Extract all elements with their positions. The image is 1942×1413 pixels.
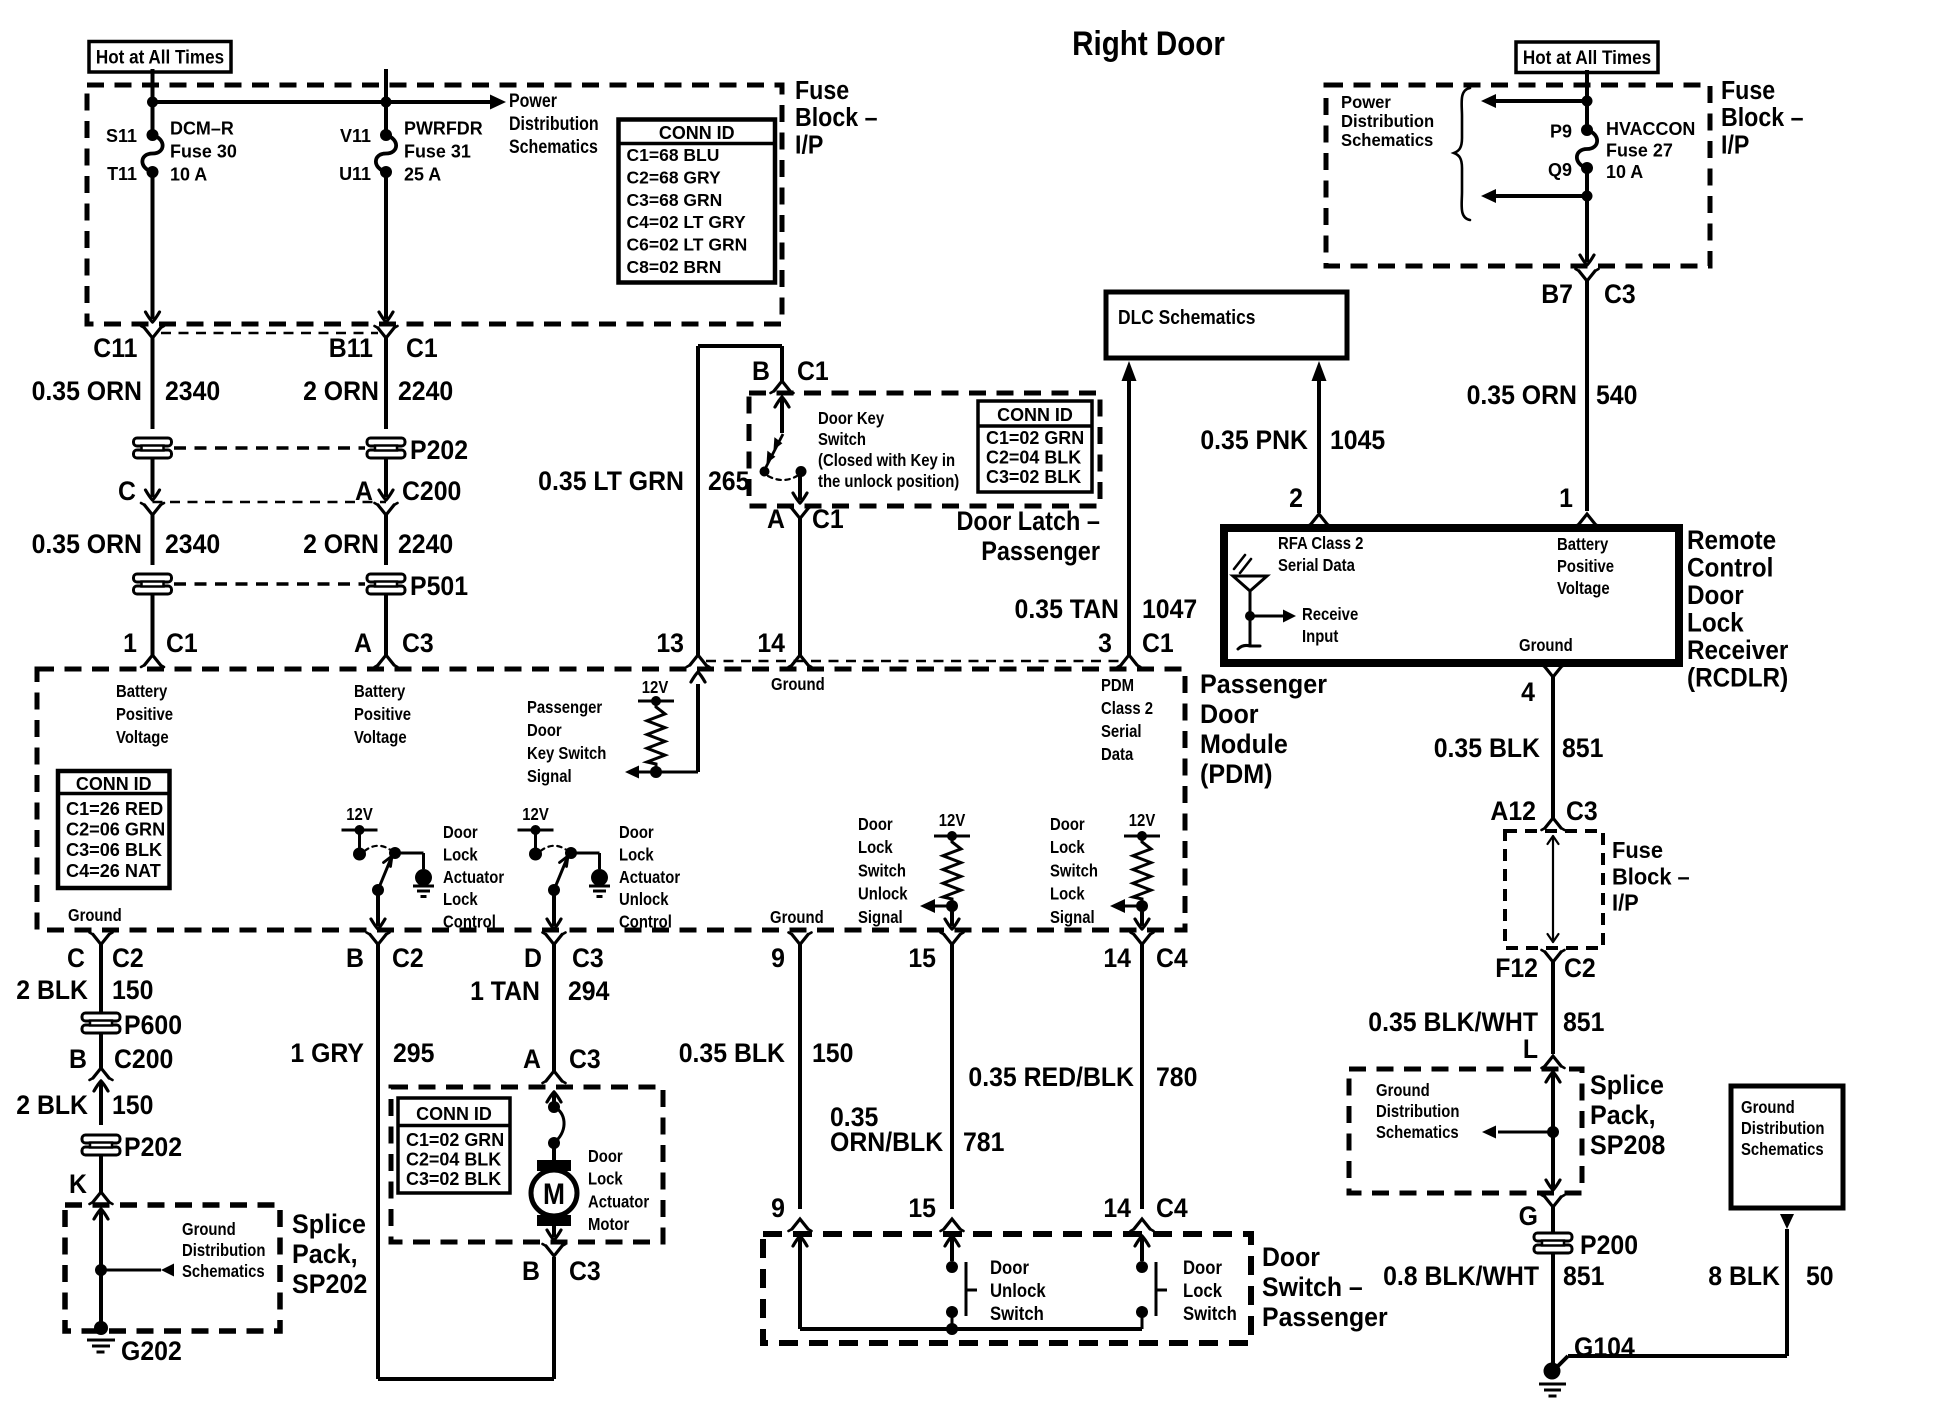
- svg-text:HVACCON: HVACCON: [1606, 119, 1695, 139]
- svg-text:S11: S11: [106, 126, 137, 146]
- svg-text:4: 4: [1521, 678, 1535, 707]
- svg-text:C8=02 BRN: C8=02 BRN: [627, 257, 722, 277]
- svg-text:0.35 LT GRN: 0.35 LT GRN: [538, 467, 684, 496]
- svg-text:Power: Power: [509, 90, 557, 112]
- svg-text:Schematics: Schematics: [1376, 1123, 1459, 1142]
- svg-text:1047: 1047: [1142, 595, 1197, 624]
- svg-text:Fuse 30: Fuse 30: [170, 141, 237, 161]
- svg-text:Lock: Lock: [1183, 1280, 1222, 1301]
- svg-text:Ground: Ground: [1741, 1098, 1795, 1117]
- svg-text:CONN ID: CONN ID: [76, 774, 152, 794]
- svg-text:Door: Door: [1687, 581, 1744, 610]
- svg-text:Fuse: Fuse: [1721, 77, 1775, 105]
- svg-text:C3: C3: [572, 944, 604, 973]
- svg-text:Distribution: Distribution: [1376, 1102, 1459, 1121]
- svg-text:Power: Power: [1341, 93, 1391, 112]
- svg-text:Block –: Block –: [1721, 104, 1803, 132]
- svg-text:C4=26 NAT: C4=26 NAT: [66, 860, 161, 881]
- svg-text:851: 851: [1562, 734, 1603, 763]
- svg-text:Door: Door: [619, 823, 654, 842]
- svg-text:(Closed with Key in: (Closed with Key in: [818, 451, 955, 470]
- svg-text:1 TAN: 1 TAN: [470, 977, 540, 1006]
- svg-text:C3: C3: [569, 1045, 601, 1074]
- svg-text:P202: P202: [124, 1133, 182, 1162]
- svg-text:0.35 PNK: 0.35 PNK: [1200, 426, 1308, 455]
- svg-text:Door: Door: [527, 721, 562, 740]
- svg-text:Module: Module: [1200, 728, 1288, 759]
- svg-text:Hot at All Times: Hot at All Times: [96, 47, 224, 68]
- svg-text:C3=02 BLK: C3=02 BLK: [406, 1169, 501, 1189]
- svg-text:851: 851: [1563, 1008, 1604, 1037]
- svg-text:C2=04 BLK: C2=04 BLK: [406, 1149, 501, 1169]
- svg-text:C4=02 LT GRY: C4=02 LT GRY: [627, 212, 746, 232]
- svg-text:294: 294: [568, 977, 610, 1006]
- svg-text:C1: C1: [797, 357, 829, 386]
- svg-text:Distribution: Distribution: [182, 1241, 265, 1260]
- svg-text:Class 2: Class 2: [1101, 699, 1153, 718]
- svg-text:I/P: I/P: [1721, 131, 1749, 159]
- svg-text:Receiver: Receiver: [1687, 636, 1788, 665]
- svg-text:A: A: [355, 477, 373, 506]
- svg-text:C: C: [118, 477, 136, 506]
- svg-text:C: C: [67, 944, 85, 973]
- svg-text:2 BLK: 2 BLK: [16, 1091, 88, 1120]
- svg-text:C200: C200: [114, 1045, 173, 1074]
- svg-text:DCM–R: DCM–R: [170, 118, 234, 138]
- svg-text:C1: C1: [166, 629, 198, 658]
- svg-text:Switch: Switch: [1050, 861, 1098, 880]
- svg-text:Control: Control: [1687, 553, 1773, 582]
- svg-text:C3=02 BLK: C3=02 BLK: [986, 467, 1081, 487]
- svg-text:B11: B11: [329, 334, 373, 363]
- svg-text:Lock: Lock: [1687, 608, 1744, 637]
- svg-text:C1: C1: [406, 334, 438, 363]
- svg-text:540: 540: [1596, 381, 1637, 410]
- svg-text:25 A: 25 A: [404, 164, 441, 184]
- svg-text:P501: P501: [410, 572, 468, 601]
- svg-text:C3: C3: [1566, 797, 1598, 826]
- svg-text:2340: 2340: [165, 377, 220, 406]
- svg-text:Voltage: Voltage: [116, 728, 169, 747]
- svg-text:0.35 ORN: 0.35 ORN: [1467, 381, 1577, 410]
- svg-text:851: 851: [1563, 1262, 1604, 1291]
- svg-text:A12: A12: [1490, 797, 1536, 826]
- svg-text:Door: Door: [990, 1257, 1029, 1278]
- svg-text:C3: C3: [1604, 280, 1636, 309]
- svg-text:12V: 12V: [642, 678, 669, 697]
- svg-text:Door: Door: [1200, 698, 1259, 729]
- svg-text:Door: Door: [1262, 1243, 1320, 1272]
- svg-text:C11: C11: [93, 334, 137, 363]
- svg-text:Lock: Lock: [443, 890, 479, 909]
- svg-text:Fuse 31: Fuse 31: [404, 141, 471, 161]
- svg-text:L: L: [1523, 1035, 1538, 1064]
- svg-text:Switch: Switch: [858, 861, 906, 880]
- svg-text:Q9: Q9: [1548, 160, 1572, 180]
- svg-text:9: 9: [771, 944, 785, 973]
- svg-text:Passenger: Passenger: [1200, 668, 1327, 699]
- svg-text:B: B: [69, 1045, 87, 1074]
- svg-text:Lock: Lock: [1050, 838, 1086, 857]
- svg-text:Serial Data: Serial Data: [1278, 556, 1356, 575]
- svg-text:2 BLK: 2 BLK: [16, 976, 88, 1005]
- svg-text:Lock: Lock: [588, 1170, 624, 1189]
- svg-text:ORN/BLK: ORN/BLK: [830, 1128, 943, 1157]
- svg-text:14: 14: [757, 629, 785, 658]
- svg-text:Signal: Signal: [858, 908, 903, 927]
- svg-text:Splice: Splice: [292, 1208, 366, 1239]
- svg-text:C200: C200: [402, 477, 461, 506]
- svg-text:B: B: [752, 357, 770, 386]
- svg-text:Control: Control: [619, 913, 672, 932]
- svg-text:Block –: Block –: [795, 104, 877, 132]
- svg-text:C1: C1: [812, 505, 844, 534]
- svg-text:2: 2: [1289, 484, 1303, 513]
- svg-text:Control: Control: [443, 913, 496, 932]
- svg-text:C2: C2: [392, 944, 424, 973]
- svg-text:I/P: I/P: [795, 131, 823, 159]
- svg-text:DLC Schematics: DLC Schematics: [1118, 307, 1255, 330]
- svg-text:Door: Door: [588, 1147, 623, 1166]
- svg-text:(RCDLR): (RCDLR): [1687, 663, 1788, 692]
- svg-text:Motor: Motor: [588, 1215, 630, 1234]
- svg-text:Passenger: Passenger: [1262, 1303, 1388, 1332]
- svg-text:0.8 BLK/WHT: 0.8 BLK/WHT: [1383, 1262, 1539, 1291]
- svg-text:K: K: [69, 1170, 87, 1199]
- svg-text:Positive: Positive: [1557, 557, 1614, 576]
- svg-text:the unlock position): the unlock position): [818, 472, 959, 491]
- svg-text:Pack,: Pack,: [1590, 1099, 1656, 1130]
- svg-text:G: G: [1519, 1202, 1538, 1231]
- svg-text:Schematics: Schematics: [1341, 131, 1433, 150]
- svg-text:Data: Data: [1101, 745, 1134, 764]
- svg-text:15: 15: [908, 944, 936, 973]
- svg-text:Battery: Battery: [354, 682, 405, 701]
- svg-text:10 A: 10 A: [1606, 162, 1643, 182]
- svg-text:1: 1: [123, 629, 137, 658]
- svg-text:Fuse 27: Fuse 27: [1606, 140, 1673, 160]
- svg-text:265: 265: [708, 467, 749, 496]
- svg-text:Actuator: Actuator: [588, 1192, 650, 1211]
- svg-text:2340: 2340: [165, 530, 220, 559]
- svg-text:C4: C4: [1156, 1194, 1188, 1223]
- svg-text:Positive: Positive: [354, 705, 411, 724]
- svg-text:781: 781: [963, 1128, 1004, 1157]
- svg-text:Lock: Lock: [858, 838, 894, 857]
- svg-text:780: 780: [1156, 1063, 1197, 1092]
- svg-text:I/P: I/P: [1612, 890, 1639, 916]
- svg-text:Signal: Signal: [1050, 908, 1095, 927]
- svg-text:(PDM): (PDM): [1200, 758, 1273, 789]
- svg-text:Door Key: Door Key: [818, 409, 884, 428]
- svg-text:1045: 1045: [1330, 426, 1385, 455]
- svg-text:D: D: [524, 944, 542, 973]
- svg-text:PDM: PDM: [1101, 676, 1134, 695]
- svg-text:C3=06 BLK: C3=06 BLK: [66, 839, 163, 860]
- svg-text:Door: Door: [858, 815, 893, 834]
- svg-text:2240: 2240: [398, 377, 453, 406]
- svg-text:B: B: [522, 1257, 540, 1286]
- svg-text:2240: 2240: [398, 530, 453, 559]
- svg-text:Splice: Splice: [1590, 1069, 1664, 1100]
- svg-text:1 GRY: 1 GRY: [290, 1039, 364, 1068]
- svg-text:295: 295: [393, 1039, 434, 1068]
- svg-text:B7: B7: [1541, 280, 1573, 309]
- svg-text:C1=68 BLU: C1=68 BLU: [627, 145, 720, 165]
- svg-text:150: 150: [112, 1091, 153, 1120]
- svg-text:Switch: Switch: [818, 430, 866, 449]
- svg-text:Fuse: Fuse: [1612, 837, 1663, 863]
- svg-text:C2=04 BLK: C2=04 BLK: [986, 447, 1081, 467]
- svg-text:0.35 BLK: 0.35 BLK: [679, 1039, 786, 1068]
- svg-text:Schematics: Schematics: [1741, 1140, 1824, 1159]
- svg-text:A: A: [354, 629, 372, 658]
- svg-text:Block –: Block –: [1612, 864, 1690, 890]
- svg-text:P200: P200: [1580, 1231, 1638, 1260]
- svg-text:Pack,: Pack,: [292, 1238, 358, 1269]
- svg-text:15: 15: [908, 1194, 936, 1223]
- svg-text:Distribution: Distribution: [509, 113, 599, 135]
- svg-text:12V: 12V: [1129, 811, 1156, 830]
- svg-text:Serial: Serial: [1101, 722, 1142, 741]
- svg-text:Ground: Ground: [1376, 1081, 1430, 1100]
- svg-text:Input: Input: [1302, 627, 1339, 646]
- svg-text:P202: P202: [410, 436, 468, 465]
- svg-text:C2: C2: [112, 944, 144, 973]
- svg-text:Battery: Battery: [1557, 535, 1608, 554]
- svg-text:Door Latch –: Door Latch –: [956, 507, 1100, 537]
- svg-text:0.35 TAN: 0.35 TAN: [1015, 595, 1119, 624]
- svg-text:0.35 RED/BLK: 0.35 RED/BLK: [968, 1063, 1134, 1092]
- svg-text:Ground: Ground: [770, 908, 824, 927]
- svg-text:PWRFDR: PWRFDR: [404, 118, 483, 138]
- svg-text:13: 13: [656, 629, 684, 658]
- svg-text:C2=06 GRN: C2=06 GRN: [66, 818, 165, 839]
- svg-text:Switch: Switch: [1183, 1303, 1237, 1324]
- svg-text:Schematics: Schematics: [182, 1262, 265, 1281]
- svg-text:Lock: Lock: [1050, 885, 1086, 904]
- svg-text:A: A: [523, 1045, 541, 1074]
- svg-text:Ground: Ground: [68, 906, 122, 925]
- svg-text:C1: C1: [1142, 629, 1174, 658]
- svg-text:Battery: Battery: [116, 682, 167, 701]
- svg-text:1: 1: [1559, 484, 1573, 513]
- svg-text:14: 14: [1103, 1194, 1131, 1223]
- svg-text:Passenger: Passenger: [527, 698, 603, 717]
- svg-text:0.35 BLK: 0.35 BLK: [1434, 734, 1541, 763]
- svg-text:150: 150: [812, 1039, 853, 1068]
- svg-text:CONN ID: CONN ID: [416, 1104, 492, 1124]
- svg-text:Remote: Remote: [1687, 526, 1776, 555]
- svg-text:Door: Door: [1183, 1257, 1222, 1278]
- svg-text:C3=68 GRN: C3=68 GRN: [627, 190, 723, 210]
- svg-text:3: 3: [1098, 629, 1112, 658]
- svg-text:CONN ID: CONN ID: [997, 405, 1073, 425]
- svg-text:SP202: SP202: [292, 1268, 367, 1299]
- svg-text:Door: Door: [1050, 815, 1085, 834]
- svg-text:C3: C3: [402, 629, 434, 658]
- svg-text:RFA Class 2: RFA Class 2: [1278, 534, 1363, 553]
- svg-text:C1=02 GRN: C1=02 GRN: [406, 1130, 504, 1150]
- svg-text:P600: P600: [124, 1011, 182, 1040]
- svg-text:8 BLK: 8 BLK: [1708, 1262, 1780, 1291]
- svg-text:M: M: [543, 1176, 565, 1210]
- svg-text:C1=26 RED: C1=26 RED: [66, 798, 163, 819]
- svg-text:Hot at All Times: Hot at All Times: [1523, 47, 1651, 68]
- svg-text:P9: P9: [1550, 121, 1572, 141]
- svg-text:Schematics: Schematics: [509, 136, 598, 158]
- svg-text:C1=02 GRN: C1=02 GRN: [986, 428, 1084, 448]
- svg-text:10 A: 10 A: [170, 164, 207, 184]
- svg-text:Key Switch: Key Switch: [527, 744, 606, 763]
- svg-text:Switch –: Switch –: [1262, 1273, 1363, 1302]
- svg-text:12V: 12V: [346, 805, 373, 824]
- svg-text:Passenger: Passenger: [981, 537, 1100, 567]
- svg-text:T11: T11: [107, 164, 137, 184]
- svg-text:14: 14: [1103, 944, 1131, 973]
- svg-text:Right Door: Right Door: [1072, 24, 1225, 62]
- svg-text:C6=02 LT GRN: C6=02 LT GRN: [627, 235, 748, 255]
- svg-text:0.35 ORN: 0.35 ORN: [32, 530, 142, 559]
- svg-text:Voltage: Voltage: [354, 728, 407, 747]
- svg-text:G202: G202: [121, 1337, 182, 1366]
- svg-text:Distribution: Distribution: [1741, 1119, 1824, 1138]
- svg-text:150: 150: [112, 976, 153, 1005]
- svg-text:2 ORN: 2 ORN: [303, 377, 379, 406]
- svg-text:Lock: Lock: [619, 845, 655, 864]
- svg-text:Receive: Receive: [1302, 605, 1358, 624]
- svg-text:Switch: Switch: [990, 1303, 1044, 1324]
- svg-text:Unlock: Unlock: [619, 890, 669, 909]
- svg-text:Unlock: Unlock: [990, 1280, 1046, 1301]
- svg-text:C2=68 GRY: C2=68 GRY: [627, 167, 722, 187]
- svg-text:V11: V11: [340, 126, 371, 146]
- svg-text:C4: C4: [1156, 944, 1188, 973]
- svg-text:Ground: Ground: [182, 1220, 236, 1239]
- svg-text:Fuse: Fuse: [795, 77, 849, 105]
- svg-text:U11: U11: [339, 164, 371, 184]
- svg-text:CONN ID: CONN ID: [659, 123, 735, 143]
- svg-text:Lock: Lock: [443, 845, 479, 864]
- svg-text:Actuator: Actuator: [619, 868, 681, 887]
- svg-text:2 ORN: 2 ORN: [303, 530, 379, 559]
- svg-text:12V: 12V: [939, 811, 966, 830]
- svg-text:Unlock: Unlock: [858, 885, 908, 904]
- svg-text:G104: G104: [1574, 1333, 1635, 1362]
- svg-text:Door: Door: [443, 823, 478, 842]
- svg-text:Ground: Ground: [1519, 636, 1573, 655]
- svg-text:B: B: [346, 944, 364, 973]
- svg-text:Actuator: Actuator: [443, 868, 505, 887]
- svg-text:C3: C3: [569, 1257, 601, 1286]
- svg-text:12V: 12V: [522, 805, 549, 824]
- svg-text:Signal: Signal: [527, 767, 572, 786]
- svg-text:Positive: Positive: [116, 705, 173, 724]
- svg-text:0.35 ORN: 0.35 ORN: [32, 377, 142, 406]
- svg-text:SP208: SP208: [1590, 1129, 1665, 1160]
- svg-text:Distribution: Distribution: [1341, 112, 1434, 131]
- svg-text:0.35 BLK/WHT: 0.35 BLK/WHT: [1368, 1008, 1538, 1037]
- svg-text:F12: F12: [1495, 954, 1538, 983]
- svg-text:A: A: [767, 505, 785, 534]
- svg-text:Voltage: Voltage: [1557, 579, 1610, 598]
- svg-text:Ground: Ground: [771, 675, 825, 694]
- svg-text:50: 50: [1806, 1262, 1834, 1291]
- svg-text:C2: C2: [1564, 954, 1596, 983]
- svg-text:9: 9: [771, 1194, 785, 1223]
